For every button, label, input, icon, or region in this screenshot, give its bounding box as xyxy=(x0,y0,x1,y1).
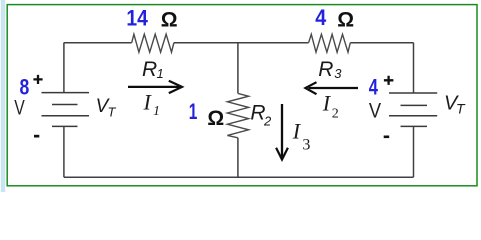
svg-text:1: 1 xyxy=(153,104,160,119)
svg-text:3: 3 xyxy=(334,66,342,81)
svg-text:I: I xyxy=(292,119,302,144)
svg-text:R: R xyxy=(142,58,157,81)
value label 14 (R1 ohms) xyxy=(126,6,148,31)
svg-text:T: T xyxy=(456,100,466,116)
wire middle branch lower xyxy=(237,138,239,177)
value label 1 (R2 ohms) xyxy=(189,99,198,124)
wire bottom segment xyxy=(64,176,414,178)
wire top-left segment xyxy=(64,42,132,44)
unit V left source xyxy=(14,97,24,120)
current arrow I2 xyxy=(305,82,358,94)
current arrow I3 xyxy=(276,104,288,160)
frame border xyxy=(7,5,477,186)
svg-text:R: R xyxy=(318,58,333,81)
resistor R2 xyxy=(227,93,248,137)
source value 4 (right) xyxy=(369,75,379,100)
reference label R1 xyxy=(142,58,164,81)
value label 4 (R3 ohms) xyxy=(315,5,327,30)
wire top-right segment xyxy=(350,42,413,44)
resistor R3 xyxy=(309,34,351,52)
current arrow I1 xyxy=(128,81,182,93)
svg-text:V: V xyxy=(369,99,381,122)
battery V_T right (4V source) xyxy=(389,93,437,126)
wire middle branch upper xyxy=(237,43,239,94)
label V_T right xyxy=(444,93,466,117)
minus sign right source xyxy=(384,136,390,139)
current label I1 xyxy=(143,90,161,120)
battery V_T left (8V source) xyxy=(42,93,90,127)
plus sign left source xyxy=(33,75,42,84)
label V_T left xyxy=(96,96,117,119)
svg-text:3: 3 xyxy=(302,136,310,153)
unit V right source xyxy=(369,99,381,122)
current label I3 xyxy=(292,119,311,154)
reference label R3 xyxy=(318,58,342,81)
svg-text:14: 14 xyxy=(126,6,148,31)
resistor R1 xyxy=(132,34,174,52)
unit label ohm (R2) xyxy=(207,107,224,130)
svg-text:T: T xyxy=(108,104,117,119)
svg-text:V: V xyxy=(14,97,24,120)
svg-text:Ω: Ω xyxy=(207,107,224,130)
current label I2 xyxy=(322,90,339,121)
wire right branch upper xyxy=(413,43,415,93)
svg-text:2: 2 xyxy=(263,114,272,129)
reference label R2 xyxy=(250,102,272,129)
source value 8 (left) xyxy=(20,75,30,100)
unit label ohm (R1) xyxy=(161,8,178,31)
wire top-middle segment xyxy=(174,42,309,44)
wire right branch lower xyxy=(413,126,415,177)
unit label ohm (R3) xyxy=(337,8,354,31)
plus sign right source xyxy=(384,76,394,85)
minus sign left source xyxy=(34,135,39,138)
wire left branch upper xyxy=(63,43,65,93)
svg-text:2: 2 xyxy=(332,106,339,121)
page background strip (left pale blue) xyxy=(1,0,5,192)
svg-text:1: 1 xyxy=(189,99,198,124)
svg-text:I: I xyxy=(322,90,332,115)
svg-text:I: I xyxy=(143,90,153,115)
wire left branch lower xyxy=(63,126,65,177)
svg-text:Ω: Ω xyxy=(337,8,354,31)
svg-text:4: 4 xyxy=(369,75,379,100)
svg-text:1: 1 xyxy=(157,66,164,81)
svg-text:4: 4 xyxy=(315,5,327,30)
svg-text:Ω: Ω xyxy=(161,8,178,31)
